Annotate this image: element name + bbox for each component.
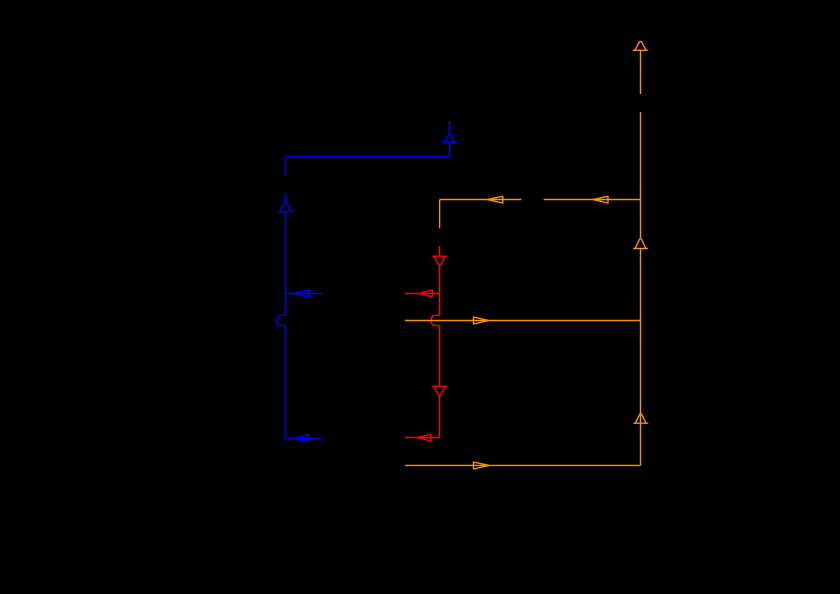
wire red bottom branch (405, 437, 440, 439)
wire blue horizontal top (286, 156, 450, 158)
node N1 blue supply net (277, 121, 457, 442)
wire hop blue over crossing (277, 315, 286, 325)
wire orange horizontal line 3 (405, 464, 641, 466)
wire blue bottom branch (286, 437, 323, 439)
wire orange vertical second segment (640, 112, 642, 238)
flow arrow red down B1 (432, 256, 447, 265)
wire blue vertical upper segment (285, 157, 287, 176)
flow arrow blue left A4 (293, 434, 309, 442)
wire orange vertical top segment (640, 50, 642, 94)
flow arrow orange right C7 (474, 461, 490, 469)
flow arrow blue up A2 (278, 202, 294, 212)
wire blue stub above arrow A2 (285, 194, 287, 202)
flow arrow orange right C6 (474, 317, 490, 325)
wire orange vertical long segment (640, 249, 642, 466)
wire blue vertical lower segment (285, 325, 287, 438)
flow arrow orange up C1 (633, 42, 648, 51)
wire orange vertical stub below line 1 (439, 200, 441, 229)
wire orange horizontal line 1 left segment (440, 199, 522, 201)
wire hop red over orange line (431, 315, 440, 325)
flow arrow orange up C2 (633, 239, 648, 249)
flow arrow red left B3 (420, 289, 433, 297)
flow arrow orange up C3 (633, 414, 648, 423)
wire red vertical lower segment (439, 395, 441, 437)
flow arrow red left B4 (418, 434, 431, 442)
wire red vertical mid segment (439, 326, 441, 387)
flow arrow blue left A3 (294, 289, 310, 297)
wire red branch at mid port (405, 293, 440, 295)
wire orange horizontal line 1 right segment (544, 199, 641, 201)
wire orange horizontal line 2 (405, 320, 641, 322)
flow arrow red down B2 (432, 386, 447, 395)
flow arrow blue up A1 (442, 134, 457, 142)
wire blue branch at mid port (286, 293, 323, 295)
wire red vertical upper segment (439, 265, 441, 315)
node N3 orange flow net (405, 42, 648, 470)
wire blue vertical mid segment (285, 212, 287, 316)
node N2 red return net (405, 246, 447, 441)
wire blue vertical below A1 (449, 142, 451, 156)
wire red stub above arrow B1 (439, 246, 441, 256)
flow arrow orange left C5 (593, 196, 608, 204)
wire blue stub above top arrow (449, 121, 451, 134)
flow arrow orange left C4 (487, 196, 503, 204)
